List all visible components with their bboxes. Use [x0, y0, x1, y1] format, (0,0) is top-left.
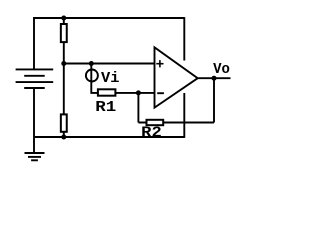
- wire op-amp output: [198, 77, 231, 79]
- resistor R2: [147, 120, 164, 125]
- wire top supply rail: [33, 17, 184, 19]
- junction dot bottom rail / divider: [61, 135, 66, 140]
- op-amp U1: [155, 47, 198, 107]
- source Vi circle: [86, 70, 98, 82]
- junction dot inverting input node: [136, 90, 141, 95]
- resistor R1: [98, 89, 116, 95]
- wire through source Vi down to corner: [91, 64, 98, 93]
- wire negative supply stub: [183, 93, 185, 138]
- wire feedback horizontal to output branch: [138, 122, 214, 124]
- wire battery negative down to ground: [33, 88, 35, 153]
- wire divider branch from top rail to bottom rail: [63, 18, 65, 138]
- ground: [25, 153, 45, 160]
- junction dot output node: [212, 76, 217, 81]
- svg-text:Vi: Vi: [101, 71, 120, 87]
- wire R1 to inverting input: [97, 92, 155, 94]
- svg-text:Vo: Vo: [213, 62, 230, 78]
- resistor R3 (upper divider): [61, 24, 67, 42]
- junction dot mid rail / Vi: [89, 61, 94, 66]
- wire positive supply stub: [183, 17, 185, 60]
- junction dot top rail / divider: [61, 16, 66, 21]
- op-amp minus marking: [157, 92, 164, 94]
- op-amp plus marking: [156, 60, 163, 67]
- wire left vertical from top rail to battery: [33, 17, 35, 69]
- wire mid rail to op-amp + input: [64, 63, 155, 65]
- battery V1: [16, 69, 54, 88]
- resistor R4 (lower divider): [61, 114, 67, 131]
- wire bottom supply rail: [34, 136, 184, 138]
- wire feedback down from inverting node: [137, 93, 139, 123]
- wire output branch vertical: [213, 78, 215, 122]
- svg-text:R2: R2: [141, 126, 162, 142]
- junction dot mid rail / divider: [61, 61, 66, 66]
- svg-text:R1: R1: [95, 100, 116, 116]
